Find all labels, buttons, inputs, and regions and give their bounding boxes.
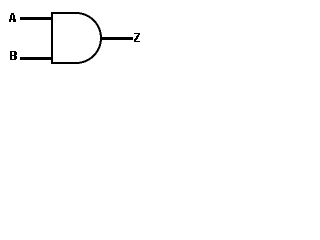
node label A bbox=[9, 13, 16, 22]
node label B bbox=[10, 51, 17, 60]
wire A input (rows 17-19, cols 20-52) bbox=[20, 17, 53, 20]
AND gate U1: left edge bbox=[51, 12, 53, 64]
wire Z output (rows 37-39, cols 100-132) bbox=[100, 37, 133, 40]
AND gate U1: top edge bbox=[51, 12, 76, 14]
AND gate U1: right arc (annulus, outer r26 inner r24, center 76,38) bbox=[76, 12, 102, 64]
wire B input (rows 57-59, cols 20-52) bbox=[20, 57, 53, 60]
node label Z bbox=[134, 33, 140, 42]
AND gate U1: bottom edge bbox=[51, 62, 76, 64]
